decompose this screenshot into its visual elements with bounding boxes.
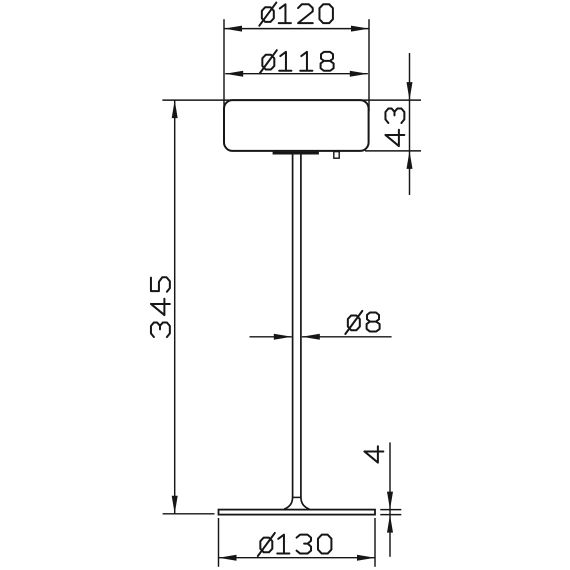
- extension line base bottom left: [163, 513, 215, 515]
- extension line o120 left: [223, 19, 225, 111]
- extension line o120 right: [368, 19, 370, 111]
- arrow 345 bottom: [172, 496, 178, 514]
- shade bottom plate bar: [273, 152, 319, 155]
- arrow o8 left: [274, 334, 292, 340]
- label 43: [385, 108, 404, 146]
- lamp shade: [224, 100, 369, 151]
- dim line 43: [409, 53, 411, 195]
- arrow 4 bottom: [387, 515, 393, 533]
- dim line o130: [219, 557, 376, 559]
- label o120: [259, 3, 333, 26]
- label 4: [364, 446, 383, 462]
- arrow 4 top: [387, 492, 393, 510]
- stem flare left: [284, 497, 292, 509]
- extension line shade bottom right: [365, 150, 421, 152]
- dim line 4: [389, 442, 391, 556]
- extension tick base top: [380, 509, 401, 511]
- extension line o130 right: [374, 518, 376, 567]
- switch box: [334, 152, 339, 159]
- label o130: [258, 533, 332, 556]
- base plate: [219, 510, 376, 515]
- label 345: [151, 277, 170, 337]
- arrow 345 top: [172, 100, 178, 118]
- dim line o8 left part: [250, 336, 292, 338]
- arrow o120 right: [351, 26, 369, 32]
- stem left edge: [292, 154, 294, 497]
- dim line o120: [224, 28, 369, 30]
- arrow o118 left: [225, 71, 243, 77]
- arrow o130 right: [357, 555, 375, 561]
- extension line shade top (shared 345 and 43): [162, 99, 421, 101]
- arrow o118 right: [350, 71, 368, 77]
- arrow o130 left: [219, 555, 237, 561]
- extension line o130 left: [218, 518, 220, 567]
- stem flare right: [301, 497, 309, 509]
- dim line 345: [174, 100, 176, 514]
- stem joint line: [292, 496, 302, 498]
- arrow o8 right: [302, 334, 320, 340]
- label o118: [260, 50, 334, 73]
- arrow 43 bottom: [407, 151, 413, 169]
- stem right edge: [300, 154, 302, 497]
- extension tick base bottom: [380, 514, 401, 516]
- arrow 43 top: [407, 82, 413, 100]
- label o8: [345, 311, 379, 334]
- dim line o118: [225, 73, 368, 75]
- dim line o8 right part: [302, 336, 392, 338]
- arrow o120 left: [224, 26, 242, 32]
